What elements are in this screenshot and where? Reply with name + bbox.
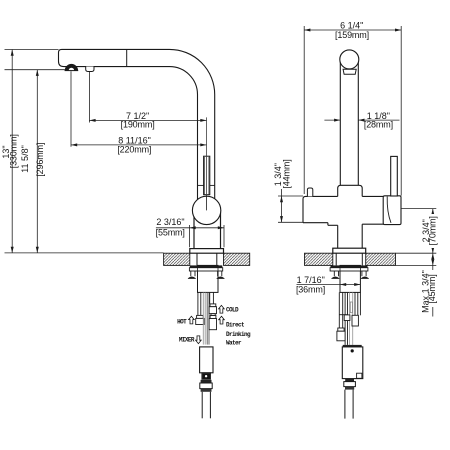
shank through counter bbox=[196, 253, 198, 265]
filter connector rings bbox=[345, 379, 354, 382]
tube joint line bbox=[198, 184, 204, 186]
outlet hose (front) bbox=[344, 390, 346, 419]
ball joint bbox=[192, 196, 220, 224]
arrow up HOT bbox=[189, 316, 195, 324]
shank neck bbox=[337, 225, 339, 248]
washer bar bbox=[331, 265, 368, 267]
svg-text:[44mm]: [44mm] bbox=[282, 159, 292, 188]
base flange bbox=[190, 249, 224, 254]
spray wand bbox=[204, 156, 210, 195]
tube slot detail bbox=[350, 302, 352, 313]
mounting bolt right bbox=[217, 271, 219, 276]
svg-text:[159mm]: [159mm] bbox=[335, 30, 369, 40]
spout column bbox=[339, 60, 341, 185]
svg-text:[70mm]: [70mm] bbox=[428, 216, 438, 245]
hot supply tube bbox=[197, 292, 199, 315]
dim 13in extension lines bbox=[5, 49, 59, 51]
tube connectors bbox=[344, 315, 350, 321]
valve block below counter bbox=[198, 265, 219, 292]
handle base bbox=[383, 196, 401, 225]
counter top/bottom ext lines bbox=[396, 252, 437, 254]
sensor window bbox=[202, 373, 210, 379]
svg-text:[45mm]: [45mm] bbox=[427, 274, 437, 303]
aerator dome bbox=[65, 64, 78, 71]
svg-text:Drinking: Drinking bbox=[226, 331, 251, 338]
svg-text:HOT: HOT bbox=[177, 319, 187, 326]
mixer tubes (gray) bbox=[203, 292, 205, 344]
bracket bar bbox=[189, 268, 222, 271]
dim 1 3/4 ext lines bbox=[278, 195, 303, 197]
cold supply tube bbox=[209, 292, 211, 304]
aerator nozzle 2 bbox=[86, 67, 94, 72]
dim 8 11/16 line bbox=[71, 144, 207, 146]
dim 13in line bbox=[11, 50, 13, 253]
svg-text:Water: Water bbox=[226, 340, 242, 347]
dim 7 1/2 line bbox=[89, 119, 206, 121]
dim 2 3/16 line + leader bbox=[156, 227, 224, 229]
arrow down MIXER bbox=[196, 336, 202, 344]
svg-text:[190mm]: [190mm] bbox=[121, 120, 155, 130]
arrowheads bbox=[11, 29, 435, 287]
drinking water hose end bbox=[210, 316, 216, 319]
washer bar bbox=[190, 265, 223, 267]
dim 11 5/8 line bbox=[36, 70, 38, 253]
dim 2 3/4 ext line (handle) bbox=[402, 208, 437, 210]
2 3/4 label bbox=[429, 214, 438, 248]
body button bbox=[307, 188, 312, 196]
spout tube outline bbox=[59, 49, 215, 200]
counter (left view) bbox=[164, 253, 190, 265]
mounting bolt left bbox=[190, 271, 192, 276]
centerline of vertical tube bbox=[206, 117, 208, 210]
ball collar bbox=[343, 69, 356, 74]
dim 7 1/2: extension from nozzle bbox=[88, 72, 90, 123]
handle lever bbox=[391, 156, 398, 196]
hose end left (front) bbox=[338, 328, 344, 331]
dim max 1 3/4 line + leader bbox=[432, 253, 434, 316]
dim 6 1/4 line bbox=[304, 29, 401, 31]
shank through counter bbox=[335, 253, 337, 265]
svg-text:[220mm]: [220mm] bbox=[117, 144, 151, 154]
svg-text:[28mm]: [28mm] bbox=[364, 119, 393, 129]
bracket bar bbox=[330, 268, 368, 271]
svg-text:2 3/16": 2 3/16" bbox=[156, 217, 184, 227]
connector rings bbox=[201, 380, 212, 383]
max 1 3/4 label bbox=[428, 270, 437, 307]
svg-text:Direct: Direct bbox=[226, 322, 245, 329]
dim 2 3/16: ext lines bbox=[189, 225, 191, 247]
dim 11 5/8 extension line bbox=[5, 69, 65, 71]
svg-text:[55mm]: [55mm] bbox=[156, 227, 185, 237]
drinking water hose neck bbox=[211, 314, 215, 316]
dim 1 1/8 line bbox=[324, 119, 340, 121]
svg-text:[330mm]: [330mm] bbox=[9, 134, 19, 168]
valve block below counter (front) bbox=[340, 265, 360, 292]
dim 1 7/16 leader + line bbox=[297, 284, 361, 286]
flow direction arrows bbox=[189, 305, 225, 343]
spout head divider bbox=[126, 49, 128, 66]
arrow up COLD bbox=[219, 305, 225, 313]
dim 6 1/4 ext lines bbox=[303, 26, 305, 194]
dim 2 3/4 line bbox=[432, 209, 434, 254]
filter cartridge bbox=[343, 345, 362, 347]
svg-text:COLD: COLD bbox=[226, 306, 239, 313]
dim 8 11/16: extension from dome bbox=[70, 71, 72, 147]
outlet hose bbox=[201, 392, 203, 419]
bolt right bbox=[361, 271, 363, 276]
svg-text:[296mm]: [296mm] bbox=[35, 143, 45, 177]
bolt left bbox=[333, 271, 335, 276]
svg-text:MIXER: MIXER bbox=[179, 337, 195, 344]
mixer weight cylinder bbox=[200, 347, 213, 373]
svg-text:[36mm]: [36mm] bbox=[296, 284, 325, 294]
arrow up Direct bbox=[219, 316, 225, 324]
base flange (front) bbox=[333, 248, 366, 253]
faucet body below ball bbox=[193, 210, 195, 249]
base body bbox=[338, 185, 363, 196]
aerator ball top bbox=[340, 50, 359, 69]
hot hose end bbox=[197, 315, 204, 318]
svg-text:11 5/8": 11 5/8" bbox=[20, 145, 30, 173]
dim 1 3/4 line bbox=[281, 189, 283, 222]
supply tubes (front) bbox=[339, 292, 360, 345]
cold hose end bbox=[210, 304, 216, 307]
counter (front view) bbox=[305, 253, 333, 265]
